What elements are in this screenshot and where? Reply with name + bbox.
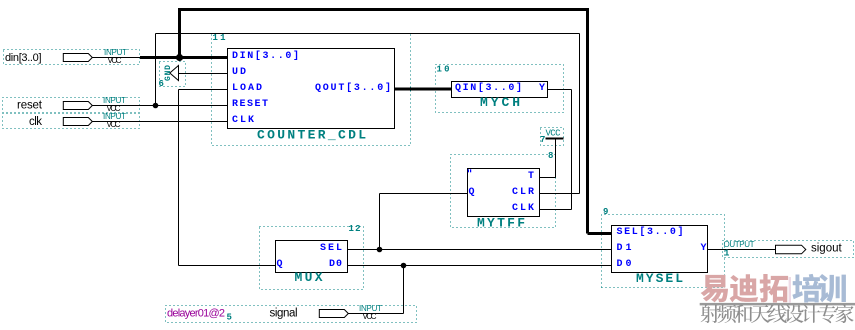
svg-text:QIN[3..0]: QIN[3..0] — [455, 82, 522, 94]
svg-text:COUNTER_CDL: COUNTER_CDL — [257, 128, 366, 143]
svg-text:OUTPUT: OUTPUT — [724, 240, 755, 249]
svg-text:Q: Q — [277, 259, 283, 270]
svg-text:VCC: VCC — [363, 312, 377, 321]
svg-text:8: 8 — [548, 151, 553, 161]
svg-text:UD: UD — [232, 67, 246, 78]
svg-text:D0: D0 — [329, 259, 342, 270]
svg-text:MYSEL: MYSEL — [636, 271, 683, 286]
svg-text:GND: GND — [164, 65, 173, 81]
svg-text:CLR: CLR — [512, 187, 534, 198]
svg-text:CLK: CLK — [232, 115, 254, 126]
svg-text:reset: reset — [17, 100, 43, 112]
svg-text:VCC: VCC — [546, 129, 562, 139]
svg-text:din[3..0]: din[3..0] — [5, 52, 42, 64]
svg-text:clk: clk — [29, 116, 42, 128]
svg-text:SEL: SEL — [320, 243, 342, 254]
svg-text:VCC: VCC — [107, 120, 121, 129]
svg-text:sigout: sigout — [811, 243, 842, 255]
svg-text:1: 1 — [724, 249, 730, 259]
svg-text:5: 5 — [227, 313, 232, 323]
svg-text:12: 12 — [349, 224, 361, 234]
svg-text:MUX: MUX — [295, 270, 323, 285]
svg-text:9: 9 — [603, 207, 608, 217]
svg-text:Q: Q — [469, 187, 475, 198]
svg-text:Y: Y — [700, 243, 706, 254]
svg-text:RESET: RESET — [232, 99, 268, 110]
svg-text:DIN[3..0]: DIN[3..0] — [232, 50, 299, 62]
svg-text:SEL[3..0]: SEL[3..0] — [617, 226, 684, 238]
svg-text:LOAD: LOAD — [232, 83, 262, 94]
svg-text:delayer01@2: delayer01@2 — [167, 308, 225, 320]
svg-text:Y: Y — [539, 83, 545, 94]
svg-text:MYTFF: MYTFF — [477, 216, 525, 231]
svg-text:11: 11 — [213, 33, 227, 43]
svg-text:CLK: CLK — [512, 203, 534, 214]
svg-text:T: T — [528, 171, 534, 182]
svg-text:VCC: VCC — [108, 56, 122, 65]
svg-text:QOUT[3..0]: QOUT[3..0] — [315, 82, 391, 94]
svg-text:signal: signal — [270, 308, 298, 320]
